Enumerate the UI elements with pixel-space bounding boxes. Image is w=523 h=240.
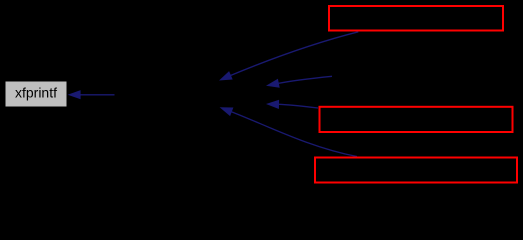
wire edge E0: middle node to xfprintf	[80, 94, 115, 96]
red box 3 (bottom right, truncated node)	[315, 158, 517, 183]
red box 2 (middle right, truncated node)	[320, 107, 513, 132]
arrowhead A3	[266, 100, 279, 109]
red box 1 (top right, truncated node)	[329, 6, 503, 31]
arrowhead A2	[266, 79, 280, 88]
wire edge E1: top red box to middle node	[231, 32, 359, 76]
node xfprintf (grey box)	[6, 82, 67, 107]
arrowhead A0 into xfprintf	[68, 90, 81, 99]
arrowhead A4	[220, 107, 234, 116]
wire edge E4: bottom red box to middle node	[231, 112, 357, 157]
svg-text:xfprintf: xfprintf	[15, 85, 57, 101]
wire edge E3: middle red box to middle node	[279, 104, 318, 108]
wire edge E2: invisible node to middle node	[278, 76, 332, 83]
arrowhead A1	[219, 71, 233, 80]
